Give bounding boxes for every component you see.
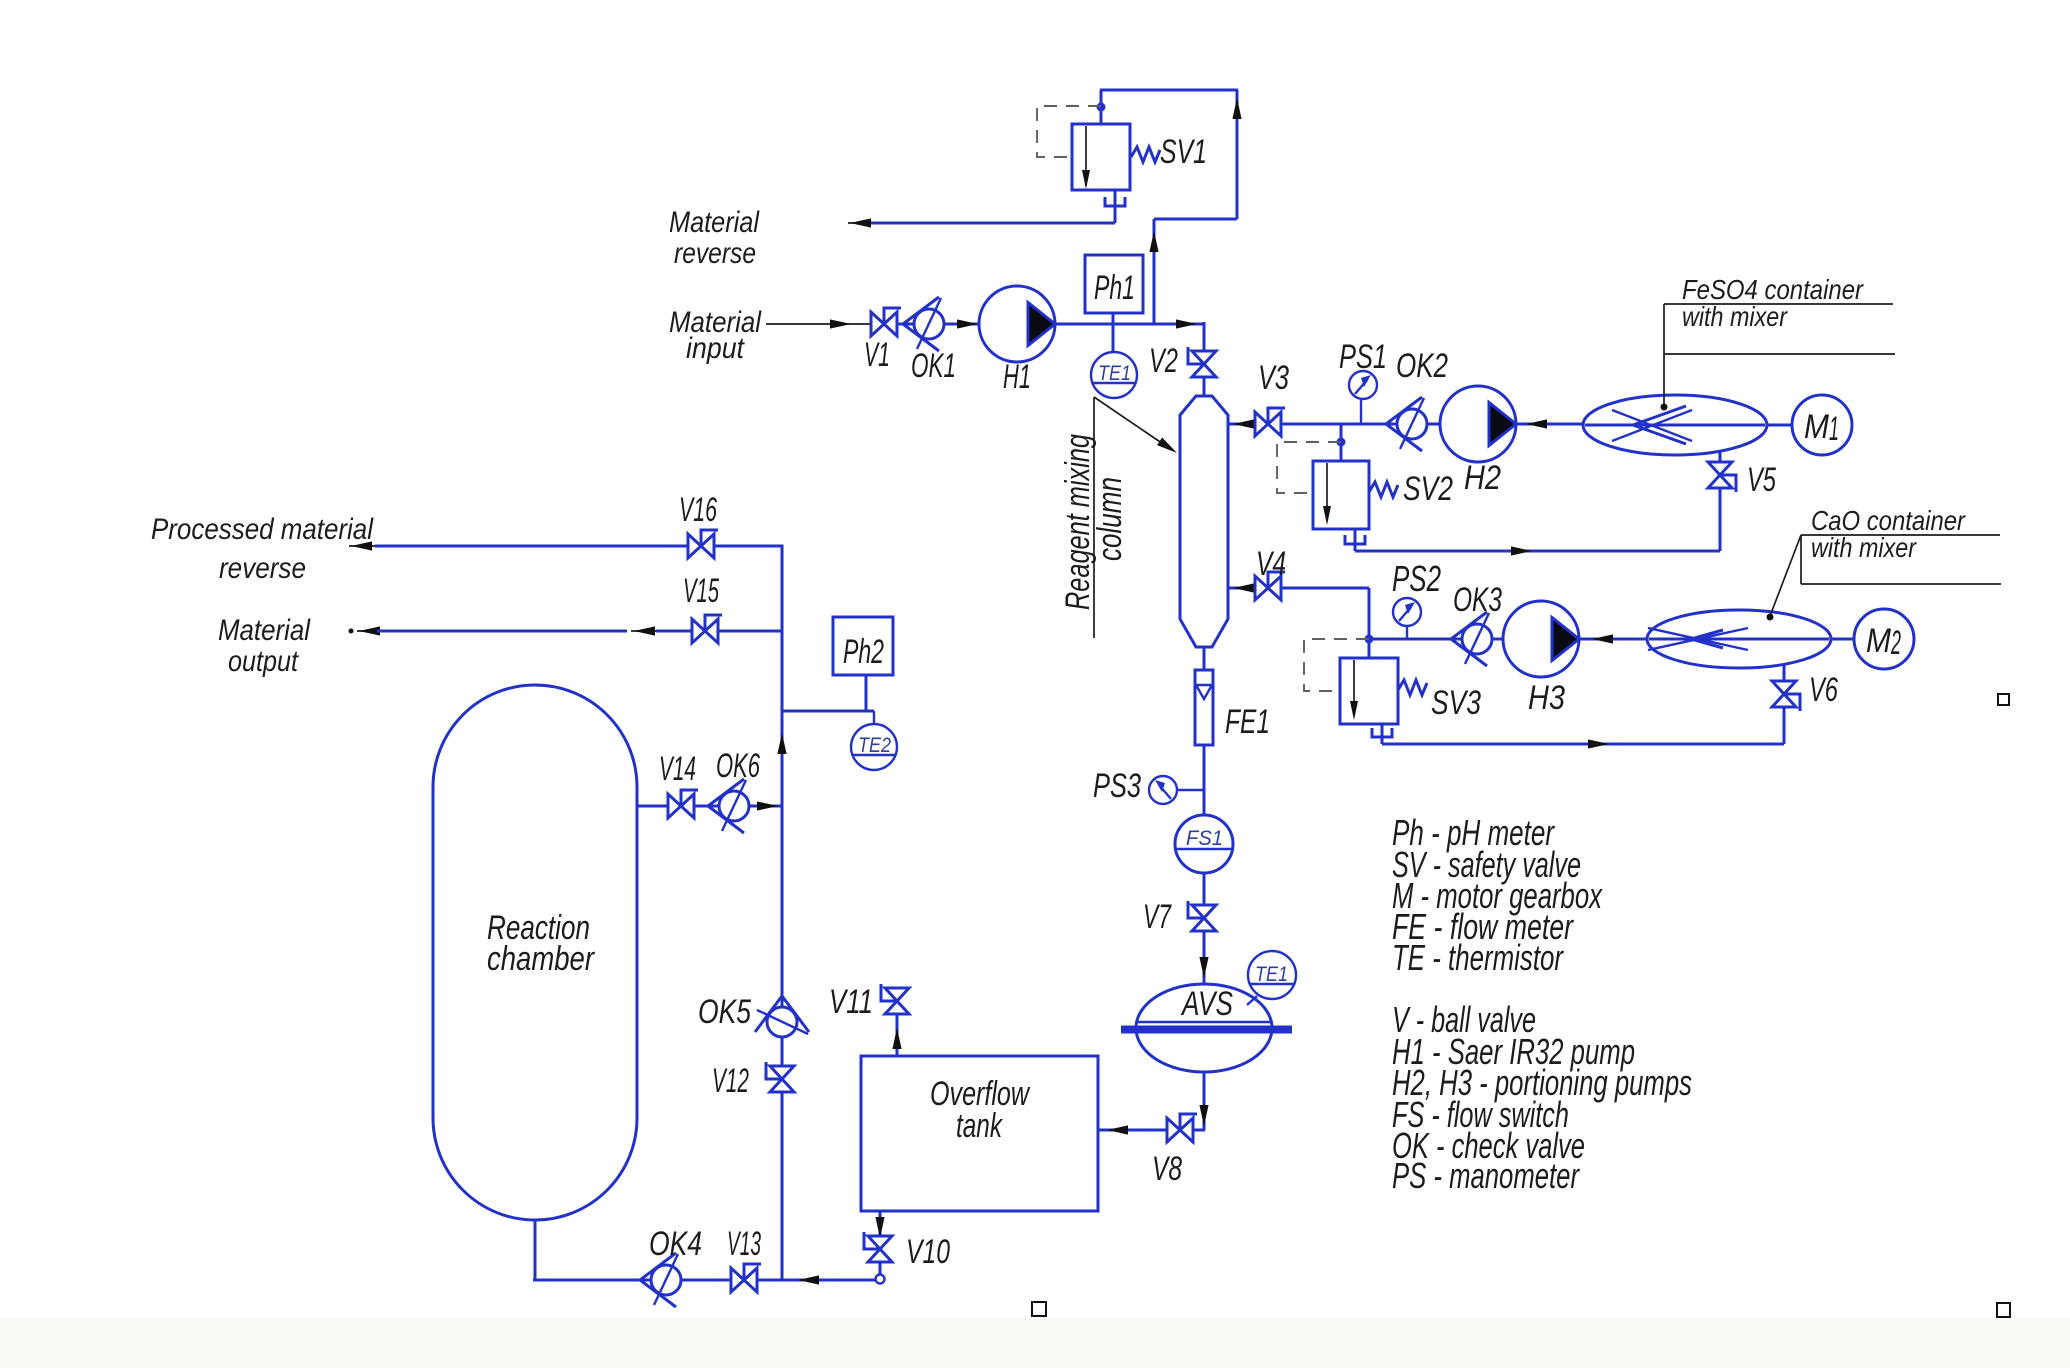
svg-text:OK2: OK2 (1396, 347, 1448, 385)
text: Reaction chamber (487, 909, 595, 978)
wire: material output line (349, 626, 783, 635)
wire: SV1 pilot dashed line (1037, 106, 1101, 157)
wire riser to Ph2 branch (782, 710, 874, 713)
svg-text:column: column (1091, 477, 1129, 561)
text: legend block 1 (1392, 812, 1603, 978)
wire FS1 to V7 (1203, 873, 1206, 905)
wire: safety loop top (1100, 90, 1242, 219)
svg-text:OK6: OK6 (716, 747, 760, 785)
check valve OK6 (708, 779, 749, 833)
svg-text:input: input (686, 332, 745, 365)
svg-text:AVS: AVS (1180, 985, 1233, 1023)
svg-text:V16: V16 (679, 491, 717, 529)
wire: processed material reverse line (349, 541, 784, 550)
node: SV3 branch (1365, 635, 1374, 644)
vessel: reagent mixing column (1180, 396, 1228, 647)
ball valve V13 (731, 1264, 761, 1292)
text: legend block 2 (1392, 999, 1692, 1196)
safety valve SV2 (1313, 461, 1398, 529)
svg-text:V5: V5 (1747, 461, 1776, 499)
wire V7 to AVS (1199, 931, 1208, 984)
decoration: stray square marks (1032, 694, 2010, 1317)
pump H1 (979, 286, 1055, 362)
svg-text:SV3: SV3 (1431, 684, 1481, 722)
node: SV2 branch (1340, 424, 1343, 461)
ball valve V11 (881, 984, 909, 1014)
pump H3 (1503, 601, 1579, 677)
svg-text:V2: V2 (1149, 342, 1178, 380)
ball valve V1 (871, 308, 901, 336)
wire container to V6 (1783, 664, 1786, 681)
svg-text:M: M (1866, 622, 1892, 660)
wire FE1 to FS1 (1203, 745, 1206, 815)
wire V8 to overflow tank (1098, 1125, 1167, 1134)
check valve OK2 (1386, 397, 1427, 451)
svg-text:V1: V1 (864, 336, 890, 374)
svg-text:V13: V13 (727, 1225, 761, 1263)
vessel: reaction chamber (433, 685, 637, 1220)
svg-text:V12: V12 (712, 1062, 749, 1100)
svg-text:Processed material: Processed material (151, 513, 374, 546)
svg-text:OK4: OK4 (649, 1225, 702, 1263)
svg-text:V3: V3 (1258, 359, 1289, 397)
svg-text:V11: V11 (829, 983, 873, 1021)
manometer PS2 (1393, 598, 1421, 639)
wire container to H2 (1516, 419, 1583, 428)
svg-text:Ph1: Ph1 (1094, 269, 1135, 307)
ball valve V15 (692, 615, 722, 643)
svg-text:2: 2 (1890, 624, 1901, 662)
manometer PS1 (1349, 371, 1377, 424)
pH meter Ph2 (833, 617, 893, 711)
svg-text:Ph2: Ph2 (843, 633, 884, 671)
ball valve V7 (1188, 901, 1216, 931)
svg-text:M: M (1804, 408, 1830, 446)
svg-text:1: 1 (1829, 410, 1839, 448)
text: Material output (218, 614, 311, 678)
check valve OK3 (1451, 612, 1492, 666)
wire: material input line (766, 319, 871, 328)
wire column bottom to FE1 (1203, 646, 1206, 671)
svg-text:SV1: SV1 (1160, 133, 1207, 171)
svg-text:OK3: OK3 (1453, 581, 1502, 619)
svg-text:OK1: OK1 (911, 347, 956, 385)
svg-text:Material: Material (669, 206, 760, 239)
wire container to V5 (1719, 451, 1722, 462)
check valve OK4 (640, 1253, 681, 1307)
wire V5 down (1719, 488, 1722, 551)
svg-text:PS1: PS1 (1339, 338, 1387, 376)
svg-text:TE1: TE1 (1255, 963, 1288, 986)
wire OK3 to H3 (1492, 638, 1503, 641)
svg-text:PS - manometer: PS - manometer (1392, 1155, 1580, 1196)
ball valve V10 (864, 1232, 892, 1262)
svg-text:tank: tank (956, 1107, 1003, 1145)
svg-text:TE - thermistor: TE - thermistor (1392, 937, 1564, 978)
svg-text:H3: H3 (1528, 679, 1565, 717)
motor gearbox M2 (1831, 609, 1914, 669)
wire: column to V4 (1228, 583, 1255, 592)
mixer AVS (1121, 984, 1292, 1072)
manometer PS3 (1149, 776, 1204, 804)
mixer vessel: CaO container (1647, 610, 1831, 668)
text: Processed material reverse (151, 513, 374, 585)
wire: main left riser (777, 546, 786, 1281)
wire container to H3 (1579, 634, 1647, 643)
check valve OK1 (903, 297, 944, 351)
svg-text:with mixer: with mixer (1811, 532, 1917, 563)
wire: SV1 drain to material reverse (848, 190, 1125, 228)
svg-text:PS3: PS3 (1093, 767, 1141, 805)
svg-text:H1: H1 (1003, 358, 1031, 396)
ball valve V14 (668, 790, 698, 818)
flow switch FS1 (1175, 815, 1233, 873)
svg-text:V14: V14 (659, 750, 696, 788)
text: Overflow tank (930, 1075, 1031, 1145)
svg-text:V15: V15 (683, 572, 719, 610)
check valve OK5 (755, 996, 809, 1037)
wire: column to V3 (1228, 419, 1255, 428)
ball valve V8 (1167, 1114, 1197, 1142)
wire tank drain to V10 (875, 1211, 884, 1238)
svg-text:with mixer: with mixer (1682, 301, 1788, 332)
wire V6 down (1783, 707, 1786, 744)
wire chamber bottom stem (534, 1220, 537, 1281)
svg-text:TE2: TE2 (858, 734, 891, 757)
wire AVS to V8 corner (1193, 1072, 1209, 1130)
wire: SV2 pilot dashed line (1277, 442, 1341, 493)
ball valve V5 (1708, 462, 1736, 492)
text: Reagent mixing column label (1059, 397, 1180, 638)
pH meter Ph1 (1085, 255, 1143, 324)
wire: SV3 pilot dashed line (1304, 639, 1369, 691)
wire OK1 to H1 (944, 319, 979, 328)
thermistor TE1 (1091, 324, 1137, 398)
svg-text:V6: V6 (1809, 671, 1838, 709)
ball valve V3 (1255, 408, 1285, 436)
safety valve SV1 (1072, 124, 1160, 190)
wire bottom return line (533, 1275, 875, 1284)
wire tank vent to V11 (892, 1014, 901, 1056)
text: CaO container with mixer (1767, 505, 2002, 621)
safety valve SV3 (1340, 658, 1427, 724)
svg-text:reverse: reverse (674, 237, 756, 270)
wire OK2 to H2 (1427, 423, 1440, 426)
thermistor TE2 (851, 711, 897, 770)
wire: riser to safety loop (1149, 219, 1158, 324)
mixer vessel: FeSO4 container (1583, 395, 1767, 455)
svg-text:OK5: OK5 (698, 993, 751, 1031)
thermistor TE1 at AVS (1247, 951, 1296, 1005)
wire V14 to OK6 (694, 805, 719, 808)
ball valve V16 (688, 530, 718, 558)
ball valve V4 (1255, 572, 1285, 600)
svg-text:H2: H2 (1464, 459, 1501, 497)
wire: SV2 drain return to container (1345, 529, 1720, 556)
ball valve V2 (1188, 347, 1216, 377)
svg-text:V10: V10 (906, 1233, 950, 1271)
text: Material reverse label (669, 206, 760, 270)
node: SV1 pilot junction (1097, 103, 1106, 112)
svg-text:SV2: SV2 (1403, 470, 1453, 508)
wire V2 to column (1203, 377, 1206, 397)
text: FeSO4 container with mixer (1661, 274, 1896, 411)
pump H2 (1440, 386, 1516, 462)
svg-text:Material: Material (218, 614, 311, 647)
wire: corner down to V2 (1203, 322, 1206, 351)
svg-text:V7: V7 (1143, 898, 1172, 936)
wire: SV3 drain return to container (1372, 724, 1784, 749)
svg-text:chamber: chamber (487, 940, 595, 978)
svg-text:V4: V4 (1256, 545, 1286, 583)
svg-text:V8: V8 (1152, 1150, 1182, 1188)
svg-text:FE1: FE1 (1225, 703, 1270, 741)
svg-text:PS2: PS2 (1392, 558, 1441, 599)
motor gearbox M1 (1767, 395, 1852, 455)
flow meter FE1 (1195, 670, 1213, 745)
svg-text:reverse: reverse (219, 552, 306, 585)
ball valve V6 (1772, 681, 1800, 711)
svg-text:FS1: FS1 (1186, 827, 1223, 850)
svg-text:output: output (228, 645, 299, 678)
wire V4 to SV3 branch (1281, 588, 1462, 658)
wire V3 to OK2 (1281, 423, 1397, 426)
text: Material input label (669, 306, 762, 365)
node: drain junction open dot (876, 1262, 885, 1284)
vessel: overflow tank (861, 1056, 1098, 1211)
wire V1 to OK1 (897, 323, 914, 326)
wire H1 to corner, main discharge line (1055, 319, 1204, 328)
wire OK6 to riser (749, 801, 782, 810)
wire chamber to V14 (637, 805, 668, 808)
svg-text:TE1: TE1 (1098, 362, 1131, 385)
ball valve V12 (766, 1062, 794, 1092)
